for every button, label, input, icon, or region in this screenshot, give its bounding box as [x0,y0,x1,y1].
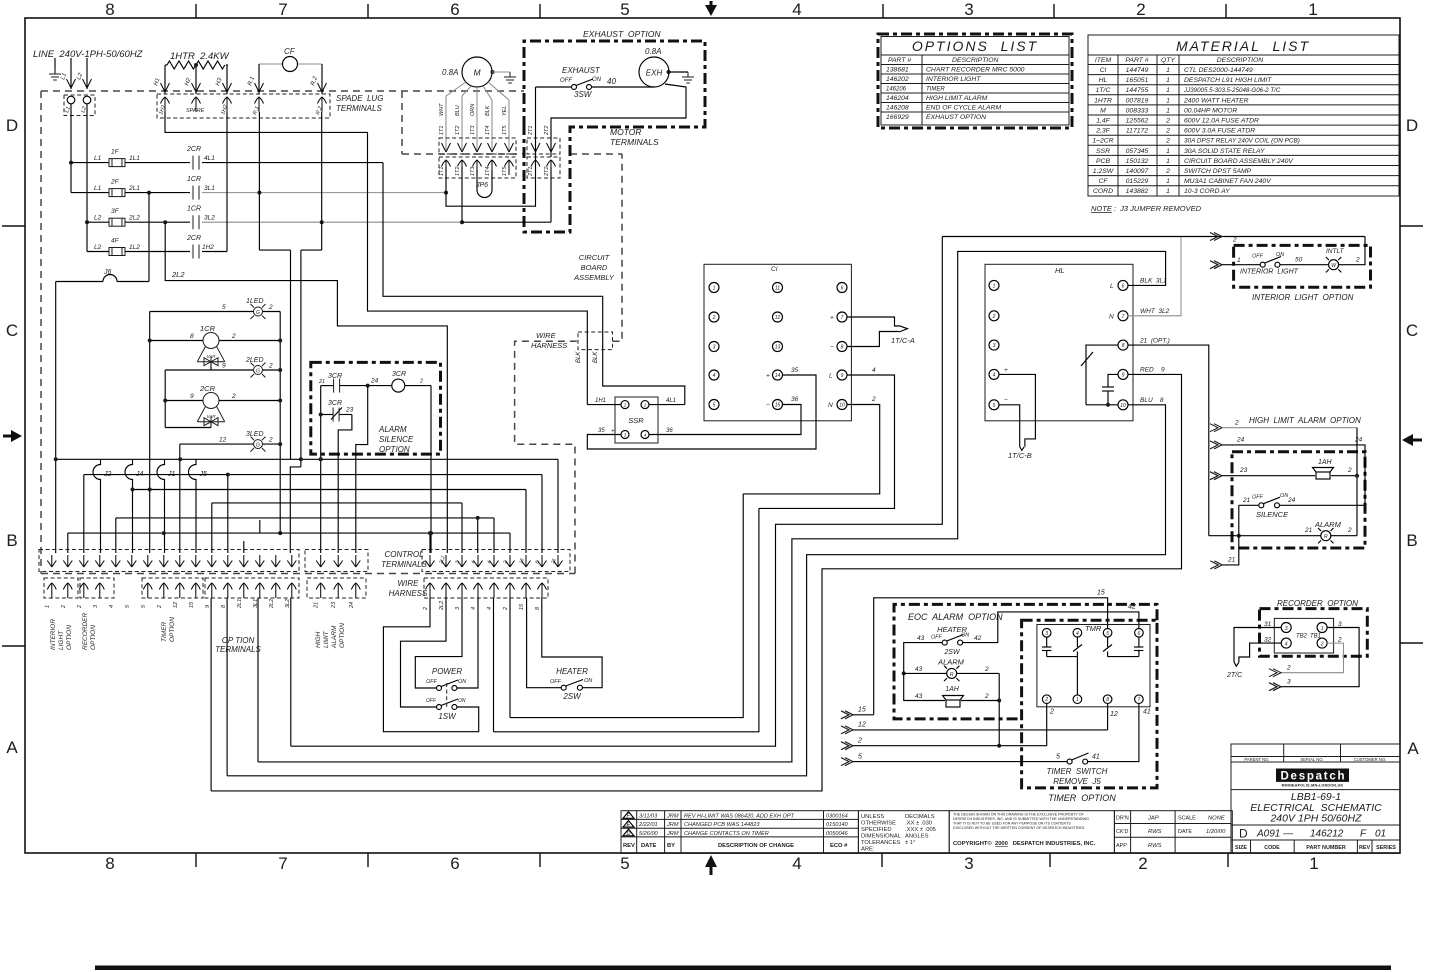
svg-text:OPTION: OPTION [339,623,346,648]
svg-text:2T2: 2T2 [544,126,550,136]
svg-text:2,3F: 2,3F [1095,128,1110,135]
svg-text:2: 2 [423,607,429,611]
svg-text:1–2CR: 1–2CR [1092,138,1113,145]
svg-text:1: 1 [1308,0,1317,19]
grid column labels bottom [105,854,1318,873]
4L1 route [383,163,685,405]
svg-text:REV HI-LIMIT WAS 086420, ADD E: REV HI-LIMIT WAS 086420, ADD EXH OPT [684,813,795,819]
svg-text:2: 2 [231,333,236,340]
svg-text:2SW: 2SW [562,692,582,701]
svg-text:ASSEMBLY: ASSEMBLY [573,273,615,282]
contact 1CR [193,215,199,229]
svg-text:1T4: 1T4 [485,167,491,176]
svg-text:7: 7 [1122,314,1125,320]
svg-text:R: R [1324,534,1328,540]
HL pin8 route [1128,345,1209,536]
svg-text:7: 7 [278,854,287,873]
svg-text:B: B [6,531,17,550]
svg-text:10-3 CORD AY: 10-3 CORD AY [1184,188,1230,195]
svg-text:R: R [950,672,954,678]
svg-text:THE DESIGN SHOWN ON THIS DRAWI: THE DESIGN SHOWN ON THIS DRAWING IS THE … [953,813,1085,817]
svg-text:HARNESS: HARNESS [531,341,567,350]
svg-text:PART NUMBER: PART NUMBER [1306,845,1346,851]
svg-text:23: 23 [331,601,337,609]
svg-text:2: 2 [992,314,996,320]
svg-text:1T/C: 1T/C [1096,87,1111,94]
svg-text:1: 1 [1321,626,1324,632]
svg-text:DR'N: DR'N [1116,816,1129,822]
svg-text:21: 21 [1227,557,1236,564]
svg-text:12: 12 [219,437,227,444]
svg-text:1: 1 [1166,178,1170,185]
svg-text:2: 2 [1165,118,1170,125]
interior light option [1234,245,1371,287]
svg-text:RED 9: RED 9 [1140,367,1165,374]
svg-text:J6: J6 [103,269,112,276]
svg-text:EXH: EXH [646,69,663,78]
svg-text:VAR: VAR [206,414,216,419]
svg-text:L: L [829,373,833,380]
HL pin10 route [227,405,1165,776]
svg-text:ALARM: ALARM [378,425,407,434]
svg-text:165051: 165051 [1126,77,1149,84]
svg-text:INTERIOR: INTERIOR [50,619,57,650]
spade lug terminal box L1 L2 [64,95,95,116]
svg-text:ALARM: ALARM [937,658,965,667]
svg-text:1T5: 1T5 [502,166,508,176]
fuse row 1 : 1F / 2CR / 4L1 [71,162,383,164]
svg-text:24: 24 [1287,497,1296,504]
svg-text:1F: 1F [111,149,120,156]
svg-text:± 1°: ± 1° [905,840,915,846]
svg-text:CHANGED PCB WAS 144823: CHANGED PCB WAS 144823 [684,822,760,828]
svg-text:1T/C-A: 1T/C-A [891,336,915,345]
svg-text:7: 7 [841,315,844,321]
svg-text:+: + [766,373,770,380]
JP6 jumper [477,170,492,198]
svg-text:1CR: 1CR [187,176,201,183]
svg-text:UNLESS: UNLESS [861,814,884,820]
CI pin15 route to SSR4 [650,405,802,435]
svg-text:−: − [766,402,770,409]
svg-text:+: + [611,429,615,435]
svg-text:21: 21 [314,602,320,609]
svg-text:3L1: 3L1 [204,185,215,192]
svg-text:CK'D: CK'D [1116,829,1129,835]
svg-text:21: 21 [1242,497,1251,504]
svg-text:10: 10 [1120,403,1126,409]
svg-text:HL: HL [1099,77,1108,84]
svg-text:BY: BY [667,843,675,849]
svg-text:ORN: ORN [470,104,476,116]
svg-text:BLK: BLK [485,105,491,116]
svg-text:SPARE: SPARE [186,108,205,114]
svg-text:TERMINALS: TERMINALS [381,560,427,569]
TMR relay [1037,625,1150,707]
svg-text:1T1: 1T1 [439,126,445,135]
svg-text:13: 13 [775,345,781,351]
svg-text:BLU 8: BLU 8 [1140,397,1164,404]
svg-text:057345: 057345 [1126,148,1149,155]
TMR internals [1042,637,1143,695]
svg-text:BLU: BLU [455,105,461,116]
HL internals [1081,345,1119,405]
svg-text:1T/C-B: 1T/C-B [1008,451,1032,460]
svg-text:CF: CF [1098,178,1108,185]
svg-text:3LED: 3LED [246,431,264,438]
svg-text:2CR: 2CR [186,235,201,242]
svg-text:F: F [627,813,631,819]
svg-text:OPTIONS LIST: OPTIONS LIST [912,38,1038,54]
OPTIONS LIST table [878,34,1072,128]
svg-text:7: 7 [1138,697,1141,703]
svg-text:01: 01 [1375,829,1386,840]
svg-text:OTHERWISE: OTHERWISE [861,821,896,827]
svg-text:1H2: 1H2 [202,244,214,251]
svg-text:3L2: 3L2 [204,215,215,222]
2T1 2T2 [527,138,560,154]
svg-text:42: 42 [1128,604,1136,611]
svg-text:CTL DES2000-144749: CTL DES2000-144749 [1184,67,1253,74]
svg-text:LIGHT: LIGHT [58,630,65,650]
svg-text:L2: L2 [94,244,102,251]
grid row labels right [1406,116,1419,758]
svg-text:2: 2 [268,437,273,444]
svg-text:JAP: JAP [1147,816,1159,822]
svg-text:32: 32 [1264,637,1272,644]
svg-text:QTY: QTY [1161,57,1175,64]
svg-text:4L1: 4L1 [666,398,676,404]
fuse row 2 : 2F / 1CR / 3L1 [71,192,190,194]
svg-text:TB1: TB1 [1310,634,1321,640]
svg-text:14: 14 [775,373,781,379]
svg-text:008333: 008333 [1126,107,1149,114]
svg-text:CORD: CORD [1093,188,1113,195]
svg-text:C: C [6,321,18,340]
fuse 4F [109,248,125,256]
svg-text:5: 5 [858,754,862,761]
svg-text:REMOVE J5: REMOVE J5 [1053,777,1101,786]
svg-text:OPTION: OPTION [90,625,97,650]
svg-text:DIMENSIONAL: DIMENSIONAL [861,834,902,840]
svg-text:4: 4 [792,854,801,873]
svg-text:12: 12 [173,602,179,608]
svg-text:1: 1 [1166,107,1170,114]
svg-text:2L2: 2L2 [128,215,140,222]
svg-text:1T3: 1T3 [470,166,476,176]
svg-text:CODE: CODE [1264,845,1280,851]
svg-text:21 (OPT.): 21 (OPT.) [1139,337,1170,344]
svg-text:6: 6 [841,286,844,292]
bundle upper Ls from CI [494,494,759,732]
L1 L2 entry arrows [71,58,87,89]
svg-text:3: 3 [713,345,716,351]
svg-text:WHT 3L2: WHT 3L2 [1140,308,1170,315]
svg-text:2: 2 [1320,642,1324,648]
grid row labels left [6,116,18,757]
svg-text:2CR: 2CR [186,146,201,153]
svg-text:SCALE: SCALE [1178,816,1196,822]
motor leads [446,82,509,150]
wire harness crossing box [578,332,613,350]
svg-text:21: 21 [318,379,325,385]
svg-text:00.04HP MOTOR: 00.04HP MOTOR [1184,107,1237,114]
EOC inputs [841,598,1108,766]
ground (motor) [504,72,516,83]
svg-text:INTLT: INTLT [1326,248,1345,255]
svg-text:8: 8 [190,333,194,340]
svg-text:1: 1 [1166,148,1170,155]
svg-text:3L2: 3L2 [285,599,291,608]
control terminals row [39,550,299,572]
svg-text:125562: 125562 [1126,118,1149,125]
svg-text:11: 11 [775,286,780,292]
1T/C-A flag [847,317,908,347]
approval block [1114,811,1232,854]
svg-text:5: 5 [620,0,629,19]
R.1 R.2 drops with jogs [259,112,321,553]
svg-text:117172: 117172 [1126,128,1148,135]
svg-text:5: 5 [1106,631,1109,637]
svg-text:4: 4 [487,607,493,610]
svg-text:CIRCUIT BOARD ASSEMBLY 240V: CIRCUIT BOARD ASSEMBLY 240V [1184,158,1294,165]
svg-text:DESCRIPTION: DESCRIPTION [952,57,999,64]
svg-text:CHART RECORDER MRC 5000: CHART RECORDER MRC 5000 [926,67,1025,74]
svg-text:TIMER SWITCH: TIMER SWITCH [1047,767,1108,776]
svg-text:1T4: 1T4 [485,126,491,135]
svg-text:CONTROL: CONTROL [384,550,423,559]
svg-text:OFF: OFF [1252,254,1264,260]
svg-text:HIGH LIMIT ALARM: HIGH LIMIT ALARM [926,95,988,102]
svg-text:WIRE: WIRE [398,579,420,588]
svg-text:8: 8 [1122,343,1125,349]
svg-text:JRM: JRM [666,813,679,819]
title block [1231,744,1400,853]
motor terminal drops [446,87,551,222]
svg-text:1: 1 [45,605,51,608]
terminal feed verticals and jumpers [68,459,260,553]
svg-text:ANGLES: ANGLES [905,834,929,840]
svg-text:G: G [256,443,260,449]
svg-text:0.8A: 0.8A [645,47,661,56]
svg-text:4: 4 [993,372,996,378]
svg-text:2: 2 [231,393,236,400]
svg-text:2: 2 [1337,637,1342,644]
svg-text:4: 4 [872,367,876,374]
timer switch [1067,704,1139,765]
svg-text:15: 15 [858,707,866,714]
svg-text:15: 15 [1097,590,1105,597]
svg-text:3: 3 [964,854,973,873]
svg-text:OFF: OFF [426,679,438,685]
motor terminal boxes [439,138,516,154]
svg-text:CIRCUIT: CIRCUIT [579,253,611,262]
svg-text:1: 1 [713,286,716,292]
svg-text:1T5: 1T5 [502,125,508,135]
svg-text:DESPATCH INDUSTRIES, INC. AND: DESPATCH INDUSTRIES, INC. AND IS SUBMITT… [953,817,1089,821]
alarm silence internal drops [321,386,431,553]
svg-text:4F: 4F [111,237,120,244]
svg-text:3: 3 [1045,631,1048,637]
svg-text:1: 1 [1309,854,1318,873]
svg-text:INTERIOR LIGHT OPTION: INTERIOR LIGHT OPTION [1252,293,1354,302]
svg-text:PARENT NO.: PARENT NO. [1244,757,1269,762]
svg-text:1T3: 1T3 [470,125,476,135]
svg-text:2: 2 [77,605,83,609]
svg-text:L2: L2 [94,215,102,222]
Despatch logo [1276,769,1349,782]
svg-text:LINE 240V-1PH-50/60HZ: LINE 240V-1PH-50/60HZ [33,49,144,60]
svg-text:1HTR: 1HTR [1094,97,1112,104]
svg-text:1: 1 [1166,77,1170,84]
circuit board dashed boundary [41,91,622,574]
svg-text:POWER: POWER [432,667,462,676]
svg-text:+: + [1004,367,1008,374]
svg-text:THAT IT IS NOT TO BE USED FOR: THAT IT IS NOT TO BE USED FOR ANY PURPOS… [953,822,1071,826]
svg-text:2L1: 2L1 [237,599,243,609]
svg-text:SPECIFIED: SPECIFIED [861,827,892,833]
fuse row 3 : 3F / 1CR / 3L2 [87,221,190,223]
svg-text:ITEM: ITEM [1095,57,1112,64]
svg-text:1: 1 [993,283,996,289]
svg-text:PART #: PART # [888,57,911,64]
svg-text:600V 12.0A FUSE ATDR: 600V 12.0A FUSE ATDR [1184,118,1259,125]
svg-text:TB2: TB2 [1296,634,1308,640]
svg-text:50: 50 [1295,257,1303,264]
svg-text:146204: 146204 [886,95,909,102]
svg-text:TMR: TMR [1085,624,1102,633]
svg-text:23: 23 [1239,467,1248,474]
svg-text:9: 9 [190,393,194,400]
svg-text:SERIES: SERIES [1376,845,1396,851]
svg-text:1T2: 1T2 [455,126,461,135]
svg-text:M: M [473,68,481,78]
svg-text:HIGH LIMIT ALARM OPTION: HIGH LIMIT ALARM OPTION [1249,416,1361,425]
svg-text:OFF: OFF [931,635,943,641]
svg-text:TIMER: TIMER [926,87,945,93]
svg-text:MINNEAPOLIS,MN•LONDON,UK: MINNEAPOLIS,MN•LONDON,UK [1282,784,1344,788]
svg-text:SSR: SSR [1096,148,1110,155]
svg-text:41: 41 [1143,709,1151,716]
lamp INTLT rays [1326,257,1329,260]
contact 1CR [193,186,199,200]
svg-text:REV: REV [623,843,635,849]
switch wiring [383,598,602,732]
ground (exhaust fan) [682,72,694,83]
svg-text:4: 4 [471,607,477,610]
svg-text:2: 2 [1165,128,1170,135]
exhaust option box [524,41,705,232]
svg-text:REV: REV [1359,845,1370,851]
svg-text:15: 15 [775,403,781,409]
svg-text:1: 1 [1166,188,1170,195]
svg-text:2: 2 [623,403,627,408]
svg-text:TIMER OPTION: TIMER OPTION [1048,793,1116,803]
1H1 route [165,112,587,405]
svg-text:3: 3 [1287,679,1291,686]
svg-text:TERMINALS: TERMINALS [215,645,261,654]
svg-text:HL: HL [1055,266,1065,275]
MATERIAL LIST table [1088,35,1399,213]
svg-text:138681: 138681 [886,67,909,74]
svg-text:0050046: 0050046 [826,831,849,837]
svg-text:RWS: RWS [1148,843,1162,849]
svg-text:4: 4 [1076,631,1079,637]
svg-text:−: − [830,344,834,351]
svg-text:5: 5 [993,403,996,409]
grid column labels top [105,0,1317,19]
svg-text:2L2: 2L2 [269,599,275,609]
svg-text:INTERIOR LIGHT: INTERIOR LIGHT [1240,269,1299,276]
svg-text:1: 1 [1166,97,1170,104]
HL connector [985,264,1133,421]
svg-text:B: B [1406,531,1417,550]
svg-text:3CR: 3CR [392,371,406,378]
svg-text:2L1: 2L1 [128,185,140,192]
svg-text:PCB: PCB [1096,158,1110,165]
bottom page bar [95,966,1391,971]
svg-text:3: 3 [993,343,996,349]
svg-text:2L2: 2L2 [439,601,445,611]
svg-text:TERMINALS: TERMINALS [336,104,382,113]
svg-text:0150140: 0150140 [826,822,849,828]
svg-text:2T1: 2T1 [528,126,534,136]
svg-text:24: 24 [370,378,379,385]
svg-text:600V 3.0A FUSE ATDR: 600V 3.0A FUSE ATDR [1184,128,1255,135]
svg-text:.XXX ± .005: .XXX ± .005 [905,827,936,833]
svg-text:9: 9 [205,605,211,608]
L1 vertical + L2 vertical [71,104,87,252]
svg-text:8: 8 [841,345,844,351]
svg-text:1,2SW: 1,2SW [1093,168,1114,175]
svg-text:SSR: SSR [628,416,644,425]
svg-text:2: 2 [984,693,989,700]
fuse 3F [109,218,125,226]
svg-text:TIMER: TIMER [161,621,168,642]
svg-text:CI: CI [771,266,778,273]
svg-text:2: 2 [419,379,423,385]
svg-text:4: 4 [792,0,801,19]
svg-text:ECO #: ECO # [830,843,848,849]
svg-text:1T2: 1T2 [455,167,461,176]
svg-text:L: L [1110,283,1114,290]
svg-text:L1: L1 [94,155,102,162]
svg-text:0.8A: 0.8A [442,68,458,77]
svg-text:2: 2 [157,605,163,609]
svg-text:2T/C: 2T/C [1226,672,1243,679]
svg-text:1L1: 1L1 [129,155,140,162]
svg-text:OPTION: OPTION [379,445,410,454]
svg-text:6: 6 [450,854,459,873]
svg-text:30A DPST RELAY 240V COIL (ON P: 30A DPST RELAY 240V COIL (ON PCB) [1184,138,1300,145]
spade lug terminals big box [157,94,330,118]
svg-text:2: 2 [503,607,509,611]
svg-text:10: 10 [839,403,845,409]
svg-text:JJ39005.5-303.5-25048-G06-2 T/: JJ39005.5-303.5-25048-G06-2 T/C [1183,87,1281,94]
fuse row 4 : 4F / 2CR / 1H2 [87,251,227,253]
svg-text:F: F [1360,829,1367,840]
svg-text:3: 3 [964,0,973,19]
svg-text:1: 1 [1166,87,1170,94]
svg-text:A091 —: A091 — [1256,829,1294,840]
svg-text:ALARM: ALARM [331,625,338,649]
LED column vertical feeds [150,312,281,554]
timer option box [1022,620,1157,788]
svg-text:146206: 146206 [886,87,907,93]
svg-text:1,4F: 1,4F [1096,118,1110,125]
svg-text:9: 9 [222,363,226,370]
svg-text:2: 2 [984,666,989,673]
